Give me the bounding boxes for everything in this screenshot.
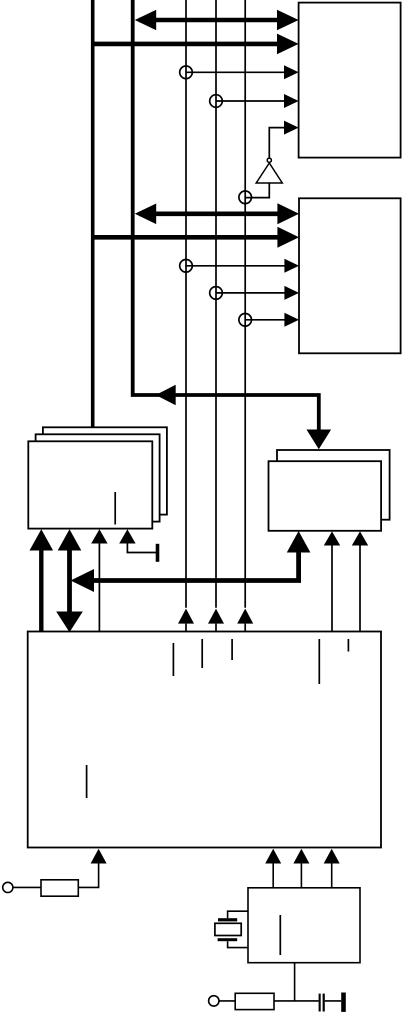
box1 peripheral top right xyxy=(299,3,401,158)
wire capacitor to bar xyxy=(325,1000,341,1002)
arrowhead right into box1 xyxy=(277,34,299,55)
wire double arrow to box1 xyxy=(139,18,294,23)
arrowhead bus B left mid xyxy=(156,385,176,405)
node circle on line 3 xyxy=(239,314,252,327)
right stack back rect xyxy=(277,450,390,520)
wire signal line 1 vertical xyxy=(185,0,187,608)
wire tap line 1 to box2 xyxy=(186,265,285,267)
arrowhead into box1 xyxy=(284,94,299,108)
tick inside oscillator box xyxy=(279,915,281,955)
arrowhead left at bus B xyxy=(135,10,156,31)
wire osc riser 3 xyxy=(331,862,333,888)
resistor R1 box xyxy=(41,880,78,896)
wire resistor to CPU xyxy=(78,862,98,887)
wire resistor R2 to capacitor xyxy=(274,1000,319,1002)
oscillator box xyxy=(248,888,360,963)
arrowhead up into CPU xyxy=(91,849,107,864)
wire tap line 3 to box2 xyxy=(245,319,285,321)
pin circle bottom input xyxy=(209,996,219,1006)
arrowhead into box1 xyxy=(284,121,299,135)
arrowhead into box2 xyxy=(284,313,299,327)
arrowhead into box2 xyxy=(284,259,299,273)
tick inside CPU 4 xyxy=(318,639,320,684)
wire thick connector stack to CPU c1 xyxy=(39,549,43,632)
wire tap line 2 to box2 xyxy=(216,292,285,294)
tick inside CPU 1 xyxy=(172,643,174,676)
tick inside CPU 6 xyxy=(86,765,88,798)
node circle on line 2 xyxy=(210,287,223,300)
arrowhead right into box1 xyxy=(277,10,299,31)
arrowhead bus B down into RAM stack xyxy=(307,430,332,450)
arrowhead signal 1 up at CPU box xyxy=(178,609,194,624)
capacitor C1 plate 2 xyxy=(323,994,325,1012)
crystal bottom plate xyxy=(218,938,238,941)
wire double arrow to box2 xyxy=(139,212,294,217)
arrowhead c7 up xyxy=(352,531,368,545)
wire tap line 1 to box1 xyxy=(186,71,285,73)
wire thick connector stack to CPU c2 double xyxy=(67,549,72,613)
left stack middle rect xyxy=(36,434,160,521)
wire crystal top to osc box xyxy=(228,911,248,918)
box2 peripheral mid right xyxy=(299,198,401,353)
termination bar c4 xyxy=(156,544,160,562)
node circle on line 3 inverter input xyxy=(239,191,252,204)
arrowhead osc riser 2 xyxy=(293,849,309,864)
arrowhead c5 left at bus xyxy=(71,569,94,592)
wire pin to resistor R2 xyxy=(219,1000,235,1002)
left stack back rect xyxy=(43,427,167,514)
left stack front rect xyxy=(28,441,152,528)
right stack front rect xyxy=(269,461,382,531)
tick inside CPU 5 xyxy=(347,639,349,652)
wire osc riser 2 xyxy=(300,862,302,888)
wire bus B vertical thick xyxy=(133,0,319,430)
arrowhead signal 3 up at CPU box xyxy=(237,609,253,624)
wire osc riser 1 xyxy=(272,862,274,888)
inverter bubble xyxy=(267,158,271,162)
pin circle reset input xyxy=(3,882,13,892)
wire tap line 2 to box1 xyxy=(216,100,285,102)
arrowhead osc riser 1 xyxy=(265,849,281,864)
tick inside CPU 2 xyxy=(201,639,203,668)
capacitor C1 plate 1 xyxy=(319,994,321,1012)
wire inverter input from node on line 3 xyxy=(245,183,269,198)
CPU big box xyxy=(28,632,381,848)
wire bus A vertical thick xyxy=(91,0,95,429)
wire signal line 2 vertical xyxy=(215,0,217,608)
arrowhead osc riser 3 xyxy=(324,849,340,864)
arrowhead c2 down xyxy=(56,612,83,633)
crystal Y1 body xyxy=(215,923,241,935)
wire signal line 3 vertical xyxy=(244,0,246,608)
wire crystal bottom to osc box xyxy=(228,941,248,947)
arrowhead into box2 xyxy=(284,286,299,300)
inverter triangle xyxy=(256,163,282,183)
wire inverter output to box1 xyxy=(269,128,285,158)
wire osc box bottom drop xyxy=(294,963,296,1001)
arrowhead c2 up xyxy=(58,529,82,550)
arrowhead c1 up xyxy=(30,529,54,550)
arrowhead c4 up xyxy=(119,529,135,543)
arrowhead signal 2 up at CPU box xyxy=(208,609,224,624)
arrowhead into box1 xyxy=(284,65,299,79)
wire thick arrow bus A to box1 xyxy=(93,42,280,47)
arrowhead right into box2 xyxy=(277,227,299,248)
tick inside left stack front rect xyxy=(114,492,116,525)
wire thick arrow bus A to box2 xyxy=(93,235,280,240)
node circle on line 1 xyxy=(180,260,193,273)
wire thick connector right stack c5 xyxy=(90,552,299,581)
node circle on line 2 xyxy=(210,95,223,108)
arrowhead right into box2 xyxy=(277,203,299,224)
arrowhead left at bus B xyxy=(135,204,156,225)
tick inside CPU 3 xyxy=(231,639,233,660)
arrowhead c6 up xyxy=(324,531,340,545)
termination bar bottom xyxy=(341,993,346,1012)
wire thin connector c4 with termination xyxy=(127,542,156,553)
resistor R2 box xyxy=(235,993,274,1009)
arrowhead c5 up into right stack xyxy=(287,531,311,553)
node circle on line 1 xyxy=(180,66,193,79)
wire thin connector c7 xyxy=(359,544,361,631)
arrowhead c3 up xyxy=(91,529,107,543)
wire pin to resistor xyxy=(13,886,41,888)
crystal top plate xyxy=(218,918,237,921)
wire thin connector c6 xyxy=(331,544,333,631)
wire thin connector c3 xyxy=(98,542,100,632)
